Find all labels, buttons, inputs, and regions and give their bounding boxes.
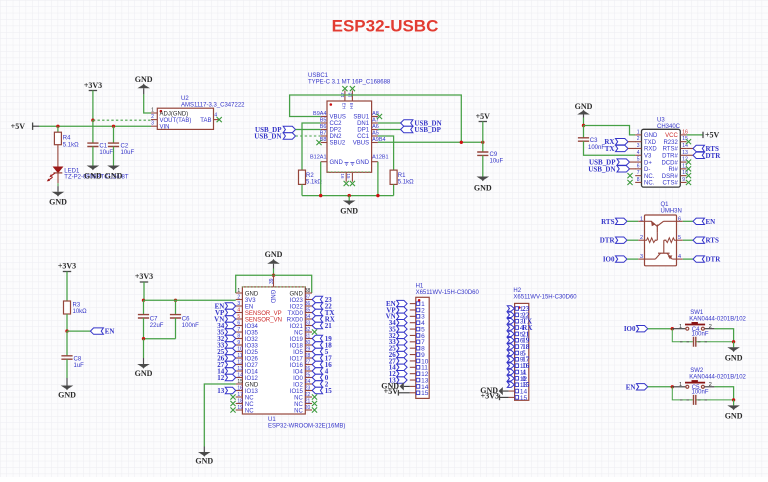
svg-text:NC.: NC.	[644, 174, 655, 180]
pin 8 IO32 of U1	[236, 338, 243, 340]
net flag 4 at H2 pin 11	[507, 369, 514, 374]
svg-text:C1: C1	[99, 144, 107, 150]
pin 16 IO13 of U1	[236, 390, 243, 392]
svg-text:ADJ(GND): ADJ(GND)	[160, 111, 189, 117]
svg-text:2: 2	[640, 235, 643, 241]
ground below C2	[107, 166, 120, 171]
net flag TX at U1 pin 35	[312, 309, 322, 315]
pin 4 V3 of U3	[635, 154, 641, 156]
svg-text:15: 15	[237, 379, 243, 385]
wire +5V rail to VIN	[39, 125, 151, 127]
junction gnd rail right	[376, 194, 379, 197]
svg-text:8: 8	[637, 177, 640, 183]
wire GND A12B1 down	[377, 162, 379, 196]
svg-text:+3V3: +3V3	[58, 262, 76, 271]
power +5V at H1 pin 15	[398, 392, 409, 394]
wire VBUS loop to +5V	[290, 95, 462, 142]
svg-text:R3: R3	[73, 303, 81, 309]
pin A8 SBU1 of USBC1	[372, 116, 378, 118]
pin 21 NC of U1	[305, 403, 312, 405]
pin 6 of Q1	[677, 220, 683, 222]
svg-text:USBC1: USBC1	[308, 73, 329, 79]
svg-text:5.1kΩ: 5.1kΩ	[398, 180, 414, 186]
svg-text:ESP32-WROOM-32E(16MB): ESP32-WROOM-32E(16MB)	[268, 424, 345, 430]
net flag 15 at U1 pin 23	[312, 387, 322, 393]
svg-text:IO4: IO4	[293, 369, 303, 375]
net flag 19 at U1 pin 31	[312, 335, 322, 341]
svg-text:100nF: 100nF	[692, 332, 709, 338]
pin 4 of Q1	[677, 258, 683, 260]
svg-text:2: 2	[637, 136, 640, 142]
svg-text:IO35: IO35	[245, 330, 259, 336]
net flag 19 at H2 pin 6	[507, 338, 514, 343]
pin 11 IO26 of U1	[236, 357, 243, 359]
pin 26 IO4 of U1	[305, 370, 312, 372]
svg-text:3: 3	[637, 143, 640, 149]
ground at H2 pin 14	[503, 390, 509, 392]
svg-text:2: 2	[709, 324, 712, 330]
svg-text:GND: GND	[265, 250, 283, 259]
wire CC1 to R1	[378, 136, 394, 170]
transistor T2 inside Q1	[664, 238, 676, 243]
svg-text:D+: D+	[644, 160, 652, 166]
svg-text:IO19: IO19	[290, 337, 304, 343]
net flag 5 at H2 pin 8	[507, 350, 514, 355]
svg-text:UMH3N: UMH3N	[661, 209, 682, 215]
svg-text:DSR#: DSR#	[662, 174, 679, 180]
svg-text:10: 10	[682, 170, 688, 176]
svg-text:NC: NC	[245, 402, 254, 408]
pin 22 NC of U1	[305, 396, 312, 398]
svg-text:32: 32	[305, 327, 311, 333]
pin 20 NC of U1	[305, 409, 312, 411]
svg-text:21: 21	[325, 322, 333, 330]
svg-text:15: 15	[520, 395, 528, 402]
svg-text:TXD: TXD	[644, 140, 657, 146]
pin 13 IO14 of U1	[236, 370, 243, 372]
LED LED1	[54, 167, 63, 172]
svg-text:IO32: IO32	[245, 337, 259, 343]
svg-text:10uF: 10uF	[490, 159, 504, 165]
svg-text:27: 27	[305, 360, 311, 366]
svg-text:SBU2: SBU2	[330, 141, 346, 147]
ground above C3	[577, 110, 590, 115]
svg-text:1: 1	[679, 324, 682, 330]
svg-text:R232: R232	[663, 140, 678, 146]
pin 15 R232 of U3	[680, 141, 686, 143]
pin B12A1 GND of USBC1	[321, 161, 327, 163]
wire SW1 pin2 to gnd	[714, 329, 733, 342]
pin B6 DP2 of USBC1	[321, 129, 327, 131]
net flag EN	[90, 328, 103, 334]
pin 2 of Q1	[638, 239, 644, 241]
svg-text:ESP32-USBC: ESP32-USBC	[332, 17, 439, 36]
svg-text:10uF: 10uF	[121, 150, 135, 156]
pin 13 of H2	[509, 384, 515, 386]
capacitor C6	[175, 300, 177, 314]
pin 30 IO18 of U1	[305, 344, 312, 346]
svg-text:IO22: IO22	[290, 304, 304, 310]
svg-text:CC2: CC2	[330, 121, 343, 127]
ground below C9	[477, 177, 490, 182]
wire EN node to flag	[67, 330, 90, 332]
pin 4 TAB of U2 no-connect	[214, 119, 220, 121]
svg-text:DTR: DTR	[706, 256, 722, 264]
pin 12 IO27 of U1	[236, 364, 243, 366]
wire C6 bottom to C7 bottom	[144, 338, 176, 340]
wire +3V3 down	[143, 282, 145, 300]
svg-text:V3: V3	[644, 153, 652, 159]
net flag RX at H2 pin 4	[507, 325, 514, 330]
svg-text:12: 12	[682, 157, 688, 163]
svg-text:GND: GND	[330, 160, 344, 166]
svg-text:IO15: IO15	[290, 389, 304, 395]
svg-text:H2: H2	[513, 288, 521, 294]
svg-text:RTS: RTS	[706, 237, 719, 245]
capacitor C8	[61, 356, 72, 359]
pin 38 GND of U1	[305, 292, 312, 294]
pin 4 of H2	[509, 327, 515, 329]
svg-text:DTR: DTR	[600, 237, 616, 245]
svg-text:CTS#: CTS#	[662, 181, 678, 187]
ground below C8	[66, 378, 68, 386]
junction left of SW2	[671, 385, 674, 388]
svg-text:GND: GND	[245, 382, 259, 388]
pin 32 NC of U1	[305, 331, 312, 333]
svg-text:IO0: IO0	[624, 325, 636, 333]
svg-text:X6511WV-15H-C30D60: X6511WV-15H-C30D60	[416, 290, 480, 296]
net flag EN at Q1 pin6	[683, 220, 693, 222]
svg-text:14: 14	[237, 373, 243, 379]
pin 2 of H2	[509, 314, 515, 316]
pin A5 CC1 of USBC1	[372, 135, 378, 137]
capacitor C1	[87, 143, 98, 146]
wire GND B12A1 down	[320, 162, 322, 196]
net flag 2 at U1 pin 24	[312, 381, 322, 387]
svg-text:VBUS: VBUS	[330, 115, 346, 121]
svg-text:VBUS: VBUS	[353, 141, 369, 147]
svg-text:5.1kΩ: 5.1kΩ	[306, 180, 322, 186]
pin 34 RXD0 of U1	[305, 318, 312, 320]
svg-text:12: 12	[237, 360, 243, 366]
pin 8 NC. of U3	[635, 181, 641, 183]
svg-text:GND: GND	[725, 412, 743, 421]
svg-text:4: 4	[237, 308, 240, 314]
wire dashed under USBC1	[328, 171, 372, 173]
ground above U2 ADJ	[137, 84, 150, 89]
pin 11 RI# of U3	[680, 168, 686, 170]
svg-text:15: 15	[346, 174, 351, 180]
svg-text:IO23: IO23	[290, 298, 304, 304]
pin 11 of H1	[410, 366, 416, 368]
pin 14 of H2	[509, 390, 515, 392]
svg-text:GND: GND	[49, 198, 67, 207]
svg-text:RI#: RI#	[668, 167, 678, 173]
svg-text:15: 15	[325, 387, 333, 395]
wire +3V3 to R3	[66, 272, 68, 302]
svg-text:36: 36	[305, 301, 311, 307]
pin 3 of H1	[410, 315, 416, 317]
module U1 ESP32-WROOM-32E	[242, 287, 305, 414]
svg-text:R2: R2	[306, 173, 314, 179]
svg-text:DP2: DP2	[330, 128, 342, 134]
svg-text:20: 20	[305, 405, 311, 411]
svg-text:TYPE-C 3.1 MT 16P_C168688: TYPE-C 3.1 MT 16P_C168688	[308, 80, 391, 86]
transistor T1 inside Q1	[645, 220, 652, 222]
shield pins EH bottom of USBC1	[345, 172, 347, 181]
net flag 15 at H2 pin 13	[507, 382, 514, 387]
svg-text:IO27: IO27	[245, 363, 259, 369]
capacitor C7	[143, 300, 145, 314]
wire VOUT dashed	[93, 119, 151, 121]
svg-text:GND: GND	[474, 184, 492, 193]
svg-text:17: 17	[237, 392, 243, 398]
net flag RTS at RTS#	[687, 147, 693, 149]
svg-text:6: 6	[237, 321, 240, 327]
pin 3 of H2	[509, 320, 515, 322]
svg-text:15: 15	[421, 390, 429, 397]
svg-text:R1: R1	[398, 173, 406, 179]
svg-text:13: 13	[237, 366, 243, 372]
svg-text:X6511WV-15H-C30D60: X6511WV-15H-C30D60	[513, 295, 577, 301]
svg-text:38: 38	[305, 288, 311, 294]
svg-text:IO33: IO33	[245, 343, 259, 349]
svg-text:RTS#: RTS#	[663, 147, 679, 153]
svg-text:NC: NC	[245, 408, 254, 414]
ground at SW2	[733, 400, 735, 406]
resistor R2	[299, 170, 306, 184]
svg-text:DN1: DN1	[357, 121, 370, 127]
svg-text:A5: A5	[372, 131, 379, 137]
wire dashed over U1 top edge	[242, 286, 305, 288]
svg-text:18: 18	[237, 399, 243, 405]
net flag RX at U1 pin 34	[312, 316, 322, 322]
svg-text:GND: GND	[245, 291, 259, 297]
svg-text:NC: NC	[294, 395, 303, 401]
pin 2 of H1	[410, 309, 416, 311]
pin 5 of H1	[410, 328, 416, 330]
svg-text:GND: GND	[725, 353, 743, 362]
junction left of SW1	[671, 327, 674, 330]
svg-text:10: 10	[237, 347, 243, 353]
svg-text:TXD0: TXD0	[287, 311, 303, 317]
svg-text:USB_DN: USB_DN	[254, 133, 281, 141]
pin 1 GND of U1	[236, 292, 243, 294]
svg-text:C3: C3	[590, 138, 598, 144]
svg-text:R4: R4	[63, 136, 71, 142]
no-connect SBU2	[316, 140, 321, 145]
pin 12 of H1	[410, 373, 416, 375]
net flag 0 at U1 pin 25	[312, 374, 322, 380]
pin 27 IO16 of U1	[305, 364, 312, 366]
ground below USBC1	[348, 196, 350, 201]
wire EN node to C8	[66, 331, 68, 356]
node junction C2 top	[112, 125, 115, 128]
svg-text:GND: GND	[84, 172, 102, 181]
net flag 21 at H2 pin 5	[507, 331, 514, 336]
svg-text:1: 1	[151, 108, 154, 114]
pin 31 IO19 of U1	[305, 338, 312, 340]
svg-text:1uF: 1uF	[74, 363, 85, 369]
pin 1 of H2	[509, 308, 515, 310]
pin 9 of H1	[410, 354, 416, 356]
svg-text:1: 1	[679, 382, 682, 388]
pin 14 of H1	[410, 385, 416, 387]
ground at H1 pin 14	[404, 385, 410, 387]
net flag USB_DP at DP1	[378, 129, 401, 131]
svg-text:+5V: +5V	[11, 122, 26, 131]
svg-text:IO21: IO21	[290, 324, 304, 330]
pin 12 DCD# of U3	[680, 161, 686, 163]
svg-text:5: 5	[237, 314, 240, 320]
wire SW2 pin2 to gnd	[714, 387, 733, 400]
junction C6 top	[174, 299, 177, 302]
switch SW1 contacts	[672, 328, 686, 330]
svg-text:NC: NC	[294, 408, 303, 414]
net flag 17 at H2 pin 9	[507, 357, 514, 362]
svg-text:A12B1: A12B1	[372, 154, 389, 160]
pin A9B4 VBUS of USBC1	[372, 142, 378, 144]
pin 14 IO12 of U1	[236, 377, 243, 379]
svg-text:VOUT(TAB): VOUT(TAB)	[160, 118, 192, 124]
pin 24 IO2 of U1	[305, 383, 312, 385]
pin 15 of H2	[509, 396, 515, 398]
svg-text:9: 9	[237, 340, 240, 346]
svg-text:31: 31	[305, 334, 311, 340]
pin 3 of Q1	[638, 258, 644, 260]
svg-text:IO18: IO18	[290, 343, 304, 349]
net flag 21 at U1 pin 33	[312, 322, 322, 328]
pin 11 of H2	[509, 371, 515, 373]
svg-text:IO12: IO12	[245, 376, 259, 382]
resistor R3	[64, 301, 71, 314]
net flag 23 at U1 pin 37	[312, 296, 322, 302]
svg-text:30: 30	[305, 340, 311, 346]
svg-text:IO5: IO5	[293, 350, 303, 356]
svg-text:25: 25	[305, 373, 311, 379]
svg-text:GND: GND	[195, 457, 213, 466]
junction EN node	[65, 329, 68, 332]
no-connect NC pins U3 left	[627, 173, 632, 178]
svg-text:Q1: Q1	[661, 202, 670, 208]
svg-text:NC: NC	[294, 330, 303, 336]
svg-text:B6: B6	[320, 124, 327, 130]
pin 1 of Q1	[638, 220, 644, 222]
pin 5 SENSOR_VN of U1	[236, 318, 243, 320]
node junction R4 top	[56, 125, 59, 128]
svg-text:5: 5	[678, 235, 681, 241]
pin 10 IO25 of U1	[236, 351, 243, 353]
svg-text:GND: GND	[340, 207, 358, 216]
svg-text:LED1: LED1	[64, 168, 80, 174]
pin B8 SBU2 of USBC1	[321, 142, 327, 144]
svg-text:9: 9	[682, 177, 685, 183]
resistor R1	[390, 170, 397, 184]
svg-text:SW2: SW2	[690, 368, 704, 374]
svg-text:+3V3: +3V3	[135, 272, 153, 281]
wire R2 bottom to gnd rail	[301, 184, 303, 195]
pin 29 IO5 of U1	[305, 351, 312, 353]
capacitor C2	[113, 126, 115, 143]
pin 7 IO35 of U1	[236, 331, 243, 333]
net flag 17 at U1 pin 28	[312, 355, 322, 361]
wire R1 bottom to gnd rail	[393, 184, 395, 195]
pin B9A4 VBUS of USBC1	[321, 116, 327, 118]
svg-text:11: 11	[237, 353, 242, 359]
svg-text:22: 22	[305, 392, 311, 398]
switch SW2 contacts	[672, 386, 686, 388]
wire gnd to CH340 GND pin	[583, 118, 585, 126]
wire USB_DP to DP2	[296, 129, 321, 131]
pin 7 of H1	[410, 341, 416, 343]
svg-text:16: 16	[237, 386, 243, 392]
junction C3 top	[582, 124, 585, 127]
pin 5 D+ of U3	[635, 161, 641, 163]
pin 2 TXD of U3	[635, 141, 641, 143]
svg-text:C7: C7	[150, 316, 158, 322]
pin B5 CC2 of USBC1	[321, 122, 327, 124]
pin 17 NC of U1	[236, 396, 243, 398]
junction U1 top gnd	[272, 274, 275, 277]
pin 9 IO33 of U1	[236, 344, 243, 346]
pin 14 RTS# of U3	[680, 147, 686, 149]
pin 7 NC. of U3	[635, 175, 641, 177]
wire +3V3 down to VOUT net	[92, 91, 94, 121]
junction C7 top	[142, 299, 145, 302]
svg-text:1: 1	[640, 216, 643, 222]
no-connect pins U3 right	[686, 139, 691, 144]
svg-text:DCD#: DCD#	[661, 160, 678, 166]
svg-text:B12A1: B12A1	[310, 154, 327, 160]
svg-text:24: 24	[305, 379, 311, 385]
svg-text:SW1: SW1	[690, 310, 704, 316]
svg-text:+5V: +5V	[705, 131, 720, 140]
wire gnd to pin1	[584, 126, 636, 135]
svg-text:EN: EN	[706, 218, 716, 226]
svg-text:USB_DN: USB_DN	[588, 165, 615, 173]
svg-text:39: 39	[269, 278, 275, 284]
svg-text:NC: NC	[245, 395, 254, 401]
pin 4 SENSOR_VP of U1	[236, 312, 243, 314]
net flag RTS at Q1 pin5	[683, 239, 693, 241]
svg-text:16: 16	[340, 174, 345, 180]
pin 3 EN of U1	[236, 305, 243, 307]
svg-text:SENSOR_VN: SENSOR_VN	[245, 317, 282, 323]
svg-text:100nF: 100nF	[692, 390, 709, 396]
wire gnd loop over U1	[236, 275, 312, 293]
net flag 16 at U1 pin 27	[312, 361, 322, 367]
net flag 22 at U1 pin 36	[312, 303, 322, 309]
svg-text:12: 12	[217, 374, 225, 382]
svg-text:2: 2	[151, 114, 154, 120]
wire U1 GND pin15 to ground	[204, 384, 235, 447]
svg-text:28: 28	[305, 353, 311, 359]
svg-text:GND: GND	[356, 160, 370, 166]
svg-text:5: 5	[637, 157, 640, 163]
wire IO0 to SW1	[648, 328, 673, 330]
pin 16 VCC of U3	[680, 134, 686, 136]
pin 8 of H2	[509, 352, 515, 354]
svg-text:29: 29	[305, 347, 311, 353]
net flag DTR at DTR#	[687, 154, 693, 156]
svg-text:EN: EN	[245, 304, 253, 310]
junction right of SW1	[732, 340, 735, 343]
wire GND to ADJ pin	[144, 94, 151, 113]
svg-text:IO26: IO26	[245, 356, 259, 362]
ground bottom left of U1	[203, 447, 205, 453]
svg-text:A6: A6	[372, 124, 379, 130]
pin 1 ADJ(GND) of U2	[151, 112, 157, 114]
